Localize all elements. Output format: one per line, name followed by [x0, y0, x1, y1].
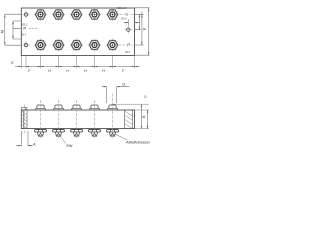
fitting centerlines side view [41, 94, 113, 139]
port label S on centerline [120, 11, 134, 17]
dimension chain extension lines [21, 56, 134, 68]
small drain hole right-middle [124, 26, 132, 34]
tiny note right hole [121, 18, 127, 21]
dimension label H at x=48.2 [48, 69, 51, 73]
right end throttle section hatched [125, 110, 133, 129]
hex port fitting bottom row 2 [52, 38, 65, 51]
svg-text:Ø5,5: Ø5,5 [22, 23, 28, 27]
svg-text:H: H [48, 69, 51, 73]
dimension C vertical [141, 95, 148, 129]
dimension label F at x=28.2 [28, 69, 31, 73]
svg-text:S: S [125, 12, 128, 17]
svg-text:R: R [127, 42, 130, 47]
svg-text:B: B [142, 115, 146, 118]
svg-text:P: P [23, 26, 26, 31]
port label R on centerline [119, 41, 134, 46]
hex plug side view 5 [107, 129, 119, 136]
small mounting hole bottom-left [22, 41, 30, 49]
dimension C and B extension lines [112, 104, 150, 128]
dimension full plate height right edge [135, 8, 150, 56]
hex bolt head side view 5 [108, 105, 117, 110]
hex bolt head side view 4 [90, 105, 99, 110]
dimension label H at x=102.2 [102, 69, 105, 73]
dimension label H at x=66.2 [66, 69, 69, 73]
label Abluftdrossel with leader [114, 134, 150, 145]
svg-text:M 5: M 5 [22, 32, 27, 36]
svg-text:Ø5,5: Ø5,5 [121, 18, 127, 21]
hex plug side view 2 [53, 129, 65, 136]
hex plug side view 3 [71, 129, 83, 136]
tiny thread note top right [117, 7, 127, 10]
svg-text:H: H [102, 69, 105, 73]
hex plug side view 1 [35, 129, 47, 136]
hex plug side view 4 [89, 129, 101, 136]
dimension G [102, 81, 130, 103]
manifold block outline (side view) [21, 110, 134, 129]
left end cap hatched [22, 110, 27, 129]
dimension label E [11, 61, 14, 65]
svg-text:Abluftdrossel: Abluftdrossel [126, 140, 150, 144]
hex port fitting top row 1 [34, 8, 47, 21]
dimension M vertical left [1, 14, 21, 45]
hex port fitting top row 2 [52, 8, 65, 21]
hex port fitting top row 3 [70, 8, 83, 21]
svg-text:H: H [66, 69, 69, 73]
svg-text:M22x1,5: M22x1,5 [117, 7, 127, 10]
hex port fitting top row 4 [88, 8, 101, 21]
tiny note bottom right [125, 51, 130, 54]
svg-text:C: C [143, 95, 147, 98]
left end cap top plug [21, 108, 27, 110]
svg-text:H: H [84, 69, 87, 73]
hex port fitting bottom row 5 [106, 38, 119, 51]
small mounting hole top-left [22, 11, 30, 19]
port label P with leader [23, 26, 38, 31]
dimension label H at x=84.2 [84, 69, 87, 73]
dimension chain line with arrows [15, 66, 140, 67]
svg-text:SW: SW [66, 144, 73, 148]
hex port fitting top row 5 [106, 8, 119, 21]
dimension drain hole to edge [124, 20, 140, 26]
left end cap centerline [23, 105, 25, 134]
hex port fitting bottom row 4 [88, 38, 101, 51]
tiny thread note left lower [22, 32, 27, 36]
svg-text:G: G [122, 81, 125, 86]
hex bolt head side view 3 [72, 105, 81, 110]
dimension A [16, 131, 36, 147]
tiny thread note left upper [22, 23, 28, 27]
dimension label F at x=122.2 [122, 69, 125, 73]
dimension B vertical [142, 110, 148, 129]
hex bolt head side view 1 [36, 105, 45, 110]
hex bolt head side view 2 [54, 105, 63, 110]
svg-text:M: M [1, 30, 5, 33]
label SW with leader [60, 136, 73, 148]
dimension top row to drain hole [135, 15, 141, 30]
svg-text:Ø10: Ø10 [125, 51, 130, 54]
hex port fitting bottom row 1 [34, 38, 47, 51]
dimension K vertical right [135, 12, 147, 46]
dimension L vertical left inner [12, 21, 20, 39]
manifold plate outline (top view) [21, 8, 134, 56]
hex port fitting bottom row 3 [70, 38, 83, 51]
